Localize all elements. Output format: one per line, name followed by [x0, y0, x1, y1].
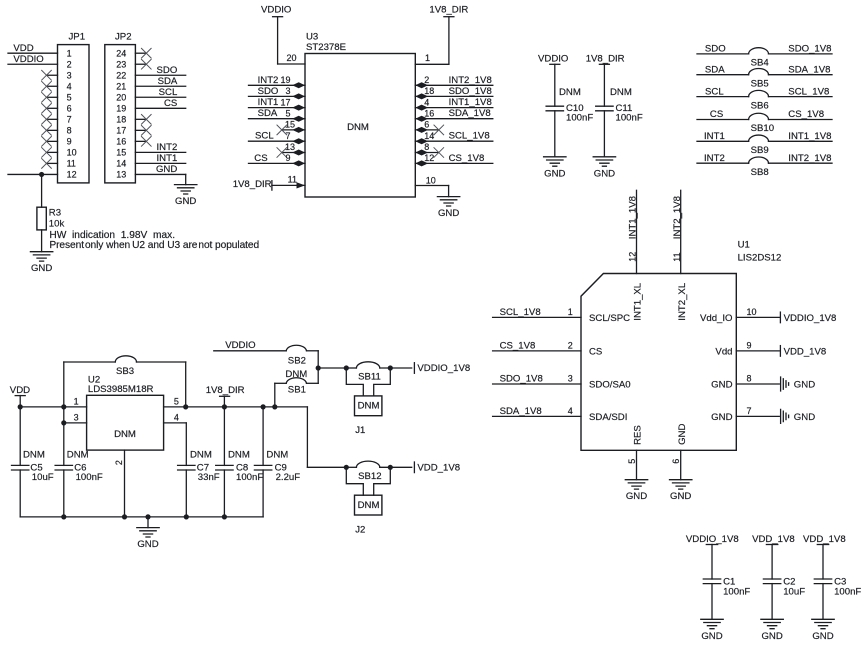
svg-text:SDO_1V8: SDO_1V8 [788, 44, 831, 55]
wire CS from JP2 [135, 98, 185, 109]
ground below R3 [30, 252, 52, 275]
power label VDDIO to SB2 [214, 340, 286, 351]
svg-text:INT1: INT1 [258, 97, 279, 108]
wire to jumper J1 [316, 365, 347, 370]
svg-text:SDA: SDA [705, 64, 725, 75]
svg-text:9: 9 [747, 340, 752, 350]
U1 pin 10 Vdd_IO wire [700, 307, 779, 324]
svg-text:DNM: DNM [358, 500, 380, 511]
svg-text:SDO: SDO [705, 44, 726, 55]
wire INT1_1V8 from U3 pin 4 [415, 97, 493, 111]
power label VDDIO at U3 pin 20 [261, 5, 305, 65]
svg-text:4: 4 [174, 413, 179, 423]
svg-text:SDA/SDI: SDA/SDI [589, 412, 627, 423]
svg-text:3: 3 [67, 70, 72, 80]
svg-text:SB5: SB5 [751, 78, 769, 89]
svg-text:14: 14 [424, 131, 434, 141]
svg-text:INT2: INT2 [704, 153, 725, 164]
wire INT2_1V8 from U3 pin 2 [415, 75, 493, 89]
svg-text:16: 16 [424, 108, 434, 118]
svg-text:8: 8 [747, 373, 752, 383]
svg-text:Presentonly whenU2 and U3 aren: Presentonly whenU2 and U3 arenot populat… [49, 240, 259, 251]
wire 1V8_DIR to jumper J2 [307, 407, 346, 467]
svg-text:5: 5 [174, 397, 179, 407]
svg-text:20: 20 [116, 92, 126, 102]
svg-text:SDA_1V8: SDA_1V8 [449, 108, 491, 119]
svg-text:5: 5 [627, 459, 637, 464]
wire SCL from JP2 [135, 87, 185, 98]
svg-text:100nF: 100nF [616, 113, 643, 124]
svg-text:1V8_DIR: 1V8_DIR [206, 385, 245, 396]
svg-text:GND: GND [711, 379, 732, 390]
svg-text:100nF: 100nF [76, 472, 103, 483]
svg-text:INT2: INT2 [157, 142, 178, 153]
svg-text:23: 23 [116, 59, 126, 69]
wire INT1 from JP2 [135, 153, 185, 164]
svg-text:INT1_XL: INT1_XL [633, 282, 644, 321]
svg-text:VDDIO_1V8: VDDIO_1V8 [784, 313, 837, 324]
svg-text:SCL_1V8: SCL_1V8 [500, 307, 541, 318]
ground below JP2 [175, 185, 197, 208]
svg-text:SB4: SB4 [751, 58, 770, 69]
svg-text:DNM: DNM [347, 122, 369, 133]
solder bridge SB8: INT2 to INT2_1V8 [697, 153, 832, 178]
wire SDO from JP2 [135, 65, 185, 76]
svg-text:DNM: DNM [67, 450, 89, 461]
svg-text:SDA: SDA [158, 76, 178, 87]
svg-text:7: 7 [285, 131, 290, 141]
svg-text:JP1: JP1 [69, 32, 86, 43]
wire CS_1V8 from U3 pin 12 [415, 153, 493, 167]
svg-text:INT2_1V8: INT2_1V8 [449, 75, 492, 86]
svg-text:17: 17 [116, 126, 126, 136]
wire SDA to U3 pin 5 [249, 108, 306, 122]
svg-text:12: 12 [628, 252, 638, 262]
ground below C1 [701, 619, 723, 642]
ground below U3 [437, 197, 459, 220]
wire INT1 to U3 pin 17 [249, 97, 306, 111]
svg-text:1: 1 [425, 53, 430, 63]
no-connect stub U3 pin 15 [277, 120, 305, 135]
svg-text:Vdd: Vdd [715, 346, 732, 357]
svg-text:13: 13 [116, 170, 126, 180]
svg-text:VDD_1V8: VDD_1V8 [784, 346, 827, 357]
svg-text:SDO/SA0: SDO/SA0 [589, 379, 631, 390]
wire INT2 from JP2 [135, 142, 185, 153]
svg-text:INT1: INT1 [704, 131, 725, 142]
wire U2 pin 2 to ground rail [114, 450, 125, 517]
wire INT1_1V8 to U1 pin 12 [627, 190, 638, 273]
svg-text:10: 10 [426, 175, 436, 185]
svg-text:33nF: 33nF [198, 472, 220, 483]
svg-text:DNM: DNM [358, 401, 380, 412]
wire SCL to U3 pin 7 [249, 131, 306, 145]
svg-text:INT1_1V8: INT1_1V8 [627, 196, 638, 239]
wire U1 pin 6 GND to ground [671, 424, 688, 480]
svg-text:11: 11 [672, 252, 682, 261]
svg-text:DNM: DNM [114, 429, 136, 440]
svg-text:10uF: 10uF [32, 472, 54, 483]
svg-text:SDO_1V8: SDO_1V8 [500, 373, 543, 384]
solder bridge SB6: SCL to SCL_1V8 [697, 86, 832, 111]
svg-text:10uF: 10uF [783, 587, 805, 598]
note text [49, 230, 259, 251]
svg-text:INT1_1V8: INT1_1V8 [788, 131, 831, 142]
wire SDO to U3 pin 3 [249, 86, 306, 100]
svg-text:4: 4 [424, 97, 429, 107]
svg-text:SB8: SB8 [751, 167, 769, 178]
svg-text:DNM: DNM [266, 450, 288, 461]
capacitor C1 100nF [686, 534, 751, 619]
capacitor C6 100nF DNM [55, 404, 103, 517]
svg-text:VDD_1V8: VDD_1V8 [803, 534, 846, 545]
svg-text:5: 5 [67, 92, 72, 102]
svg-text:7: 7 [67, 115, 72, 125]
svg-text:2.2uF: 2.2uF [276, 472, 301, 483]
ground below C3 [812, 619, 834, 642]
svg-text:4: 4 [67, 81, 72, 91]
svg-text:18: 18 [424, 86, 434, 96]
svg-text:11: 11 [288, 175, 297, 185]
power label VDD_1V8 at U1 pin 9 [780, 346, 826, 358]
wire SDA_1V8 from U3 pin 16 [415, 108, 493, 122]
svg-text:INT1: INT1 [157, 153, 178, 164]
svg-text:DNM: DNM [559, 87, 581, 98]
svg-text:GND: GND [794, 412, 815, 423]
svg-text:SB9: SB9 [751, 145, 769, 156]
svg-text:VDDIO_1V8: VDDIO_1V8 [686, 534, 739, 545]
solder bridge SB10: CS to CS_1V8 [697, 109, 832, 134]
svg-text:100nF: 100nF [723, 587, 750, 598]
svg-text:15: 15 [285, 120, 295, 130]
svg-text:R3: R3 [49, 208, 61, 219]
svg-text:DNM: DNM [228, 450, 250, 461]
wire GND from JP2 pin 13 [135, 164, 185, 185]
ground rail under U2 [20, 514, 263, 527]
capacitor C2 10uF [752, 534, 805, 619]
svg-text:J1: J1 [355, 425, 365, 436]
svg-text:100nF: 100nF [236, 472, 263, 483]
svg-text:GND: GND [677, 424, 688, 445]
svg-text:17: 17 [280, 97, 290, 107]
wire 1V8_DIR to U3 pin 11 [233, 175, 305, 191]
ground below C10 [544, 157, 566, 180]
svg-text:1: 1 [568, 307, 573, 317]
svg-text:1: 1 [67, 48, 72, 58]
capacitor C10 100nF DNM [538, 53, 593, 157]
wire SDA_1V8 to U1 pin 4 [493, 406, 628, 423]
wire U3 pin 10 to ground [415, 175, 448, 196]
svg-text:18: 18 [116, 115, 126, 125]
svg-text:INT2_XL: INT2_XL [677, 282, 688, 321]
wire SCL_1V8 to U1 pin 1 [493, 307, 631, 324]
svg-text:DNM: DNM [285, 369, 307, 380]
svg-text:SDA_1V8: SDA_1V8 [788, 64, 830, 75]
wire SDA from JP2 [135, 76, 185, 87]
svg-text:10: 10 [747, 307, 757, 317]
wire U2 pin 3 [61, 413, 86, 426]
svg-text:10k: 10k [49, 219, 65, 230]
capacitor C9 2.2uF DNM [254, 407, 300, 517]
svg-text:9: 9 [67, 137, 72, 147]
wire CS to U3 pin 9 [249, 153, 306, 167]
power label VDD [10, 385, 30, 465]
wire VDD rail to U2 pin 1 [18, 397, 87, 410]
sideways ground at U1 pin 8 [781, 377, 816, 391]
wire U2 pin 4 bypass [164, 413, 187, 466]
capacitor C11 100nF DNM [586, 53, 643, 157]
svg-text:GND: GND [711, 412, 732, 423]
svg-text:3: 3 [285, 86, 290, 96]
svg-text:LIS2DS12: LIS2DS12 [738, 253, 782, 264]
svg-text:6: 6 [671, 459, 681, 464]
solder bridge SB2 DNM [285, 345, 318, 383]
U1 pin 8 GND wire [711, 373, 779, 390]
svg-text:CS_1V8: CS_1V8 [788, 109, 824, 120]
svg-text:7: 7 [747, 406, 752, 416]
svg-text:SCL_1V8: SCL_1V8 [788, 86, 829, 97]
svg-text:22: 22 [116, 70, 126, 80]
svg-text:16: 16 [116, 137, 126, 147]
svg-text:SDO: SDO [157, 65, 178, 76]
svg-text:CS_1V8: CS_1V8 [449, 153, 485, 164]
svg-text:2: 2 [424, 75, 429, 85]
svg-text:ST2378E: ST2378E [306, 42, 346, 53]
wire SCL_1V8 from U3 pin 14 [415, 131, 493, 145]
wire VDDIO to JP1 pin 2 [8, 54, 58, 65]
svg-text:13: 13 [285, 142, 295, 152]
svg-text:1V8_DIR: 1V8_DIR [586, 53, 625, 64]
svg-text:9: 9 [285, 153, 290, 163]
svg-text:VDDIO: VDDIO [13, 54, 43, 65]
svg-text:SDO: SDO [258, 86, 279, 97]
svg-text:VDD_1V8: VDD_1V8 [417, 462, 460, 473]
svg-text:VDDIO: VDDIO [225, 340, 255, 351]
power label VDD_1V8 at J2 [414, 462, 460, 473]
svg-text:LDS3985M18R: LDS3985M18R [88, 384, 154, 395]
svg-text:INT1_1V8: INT1_1V8 [449, 97, 492, 108]
svg-text:U3: U3 [306, 31, 318, 42]
svg-text:VDD_1V8: VDD_1V8 [752, 534, 795, 545]
svg-text:INT2: INT2 [258, 75, 279, 86]
power label VDDIO_1V8 at U1 pin 10 [780, 312, 836, 324]
svg-text:SCL/SPC: SCL/SPC [589, 313, 630, 324]
capacitor C3 100nF [803, 534, 861, 619]
svg-text:2: 2 [114, 460, 124, 465]
svg-text:SB12: SB12 [358, 471, 381, 482]
wire SDO_1V8 to U1 pin 3 [493, 373, 631, 390]
wire R3 to ground [41, 230, 43, 252]
connector JP2 [105, 32, 136, 183]
ground below U1 pin 5 [625, 480, 647, 503]
accelerometer U1 LIS2DS12 body [581, 240, 781, 451]
svg-text:SB11: SB11 [358, 372, 381, 383]
svg-text:12: 12 [424, 153, 434, 163]
svg-text:INT2_1V8: INT2_1V8 [788, 153, 831, 164]
svg-text:CS_1V8: CS_1V8 [500, 340, 536, 351]
svg-text:J2: J2 [355, 524, 365, 535]
regulator U2 LDS3985M18R body [87, 374, 164, 450]
wire SDO_1V8 from U3 pin 18 [415, 86, 493, 100]
svg-text:100nF: 100nF [566, 113, 593, 124]
svg-text:CS: CS [589, 346, 602, 357]
svg-text:DNM: DNM [23, 450, 45, 461]
svg-text:4: 4 [568, 406, 573, 416]
power label VDDIO_1V8 at J1 [414, 363, 470, 374]
svg-text:1V8_DIR: 1V8_DIR [429, 5, 468, 16]
svg-text:1: 1 [74, 397, 79, 407]
svg-text:20: 20 [286, 53, 296, 63]
wire JP1 pin 12 net [8, 172, 58, 207]
svg-text:DNM: DNM [190, 450, 212, 461]
svg-text:6: 6 [67, 104, 72, 114]
svg-text:RES: RES [633, 425, 644, 445]
wire VDD to JP1 pin 1 [8, 43, 58, 54]
svg-text:2: 2 [568, 340, 573, 350]
svg-text:GND: GND [794, 379, 815, 390]
solder bridge SB3 [64, 356, 186, 407]
svg-text:CS: CS [164, 98, 177, 109]
svg-text:SDA_1V8: SDA_1V8 [500, 406, 542, 417]
svg-text:2: 2 [67, 59, 72, 69]
no-connect stub U3 pin 13 [277, 142, 305, 158]
wire CS_1V8 to U1 pin 2 [493, 340, 603, 357]
svg-text:SCL_1V8: SCL_1V8 [449, 131, 490, 142]
svg-text:SB10: SB10 [751, 123, 774, 134]
svg-text:21: 21 [116, 81, 126, 91]
power label 1V8_DIR at U3 pin 1 [415, 5, 468, 65]
sideways ground at U1 pin 7 [781, 409, 816, 423]
svg-text:SCL: SCL [159, 87, 178, 98]
svg-text:SDA: SDA [258, 108, 278, 119]
svg-text:VDDIO_1V8: VDDIO_1V8 [417, 363, 470, 374]
jumper J2 with solder bridge SB12 DNM [344, 461, 412, 535]
solder bridge SB1 [275, 378, 318, 407]
wire U2 pin 5 output rail 1V8_DIR [164, 397, 308, 410]
capacitor C8 100nF DNM [216, 407, 264, 517]
svg-text:JP2: JP2 [115, 32, 132, 43]
wire U1 pin 5 RES to ground [627, 425, 644, 480]
svg-text:100nF: 100nF [834, 587, 861, 598]
svg-text:11: 11 [67, 159, 76, 169]
svg-text:CS: CS [710, 109, 723, 120]
svg-text:VDDIO: VDDIO [261, 5, 291, 16]
U1 pin 9 Vdd wire [715, 340, 779, 357]
svg-text:24: 24 [116, 48, 126, 58]
svg-text:CS: CS [254, 153, 267, 164]
solder bridge SB5: SDA to SDA_1V8 [697, 64, 832, 89]
jumper J1 with solder bridge SB11 DNM [344, 362, 412, 436]
svg-text:8: 8 [67, 126, 72, 136]
no-connect stubs JP2 pins 24,23,18,17,16 [135, 48, 151, 147]
ground below U2 rail [137, 528, 159, 551]
no-connect stub U3 pin 6 [415, 120, 444, 135]
svg-text:1V8_DIR: 1V8_DIR [233, 179, 272, 190]
svg-text:5: 5 [285, 108, 290, 118]
svg-text:3: 3 [568, 373, 573, 383]
no-connect stubs JP1 pins 3-11 [41, 70, 57, 169]
svg-text:U1: U1 [738, 240, 750, 251]
connector JP1 [58, 32, 90, 183]
svg-text:19: 19 [116, 104, 126, 114]
resistor R3 10k [37, 207, 65, 230]
svg-text:SB3: SB3 [116, 366, 134, 377]
no-connect stub U3 pin 8 [415, 142, 444, 158]
svg-text:GND: GND [156, 164, 177, 175]
svg-text:SB6: SB6 [751, 100, 769, 111]
svg-text:3: 3 [74, 413, 79, 423]
svg-text:VDDIO: VDDIO [538, 53, 568, 64]
svg-text:12: 12 [67, 170, 77, 180]
capacitor C5 10uF DNM [12, 450, 54, 517]
ground below C2 [761, 619, 783, 642]
svg-text:INT2_1V8: INT2_1V8 [672, 196, 683, 239]
svg-text:14: 14 [116, 159, 126, 169]
wire INT2 to U3 pin 19 [249, 75, 306, 89]
solder bridge SB4: SDO to SDO_1V8 [697, 44, 832, 69]
wire INT2_1V8 to U1 pin 11 [672, 190, 683, 273]
capacitor C7 33nF DNM [178, 450, 220, 517]
svg-text:15: 15 [116, 148, 126, 158]
ground below U1 pin 6 [670, 480, 692, 503]
svg-text:DNM: DNM [610, 87, 632, 98]
U1 pin 7 GND wire [711, 406, 779, 423]
ground below C11 [593, 157, 615, 180]
svg-text:SCL: SCL [705, 86, 724, 97]
net label 1V8_DIR [206, 385, 245, 407]
svg-text:SB2: SB2 [288, 355, 306, 366]
op-amp U3 ST2378E body [305, 31, 415, 197]
svg-text:VDD: VDD [10, 385, 30, 396]
svg-text:SB1: SB1 [288, 385, 306, 396]
svg-text:SDO_1V8: SDO_1V8 [449, 86, 492, 97]
svg-text:Vdd_IO: Vdd_IO [700, 313, 733, 324]
svg-text:6: 6 [424, 120, 429, 130]
svg-text:10: 10 [67, 148, 77, 158]
svg-text:SCL: SCL [255, 131, 274, 142]
solder bridge SB9: INT1 to INT1_1V8 [697, 131, 832, 156]
svg-text:19: 19 [280, 75, 290, 85]
svg-text:VDD: VDD [13, 43, 33, 54]
svg-text:8: 8 [424, 142, 429, 152]
